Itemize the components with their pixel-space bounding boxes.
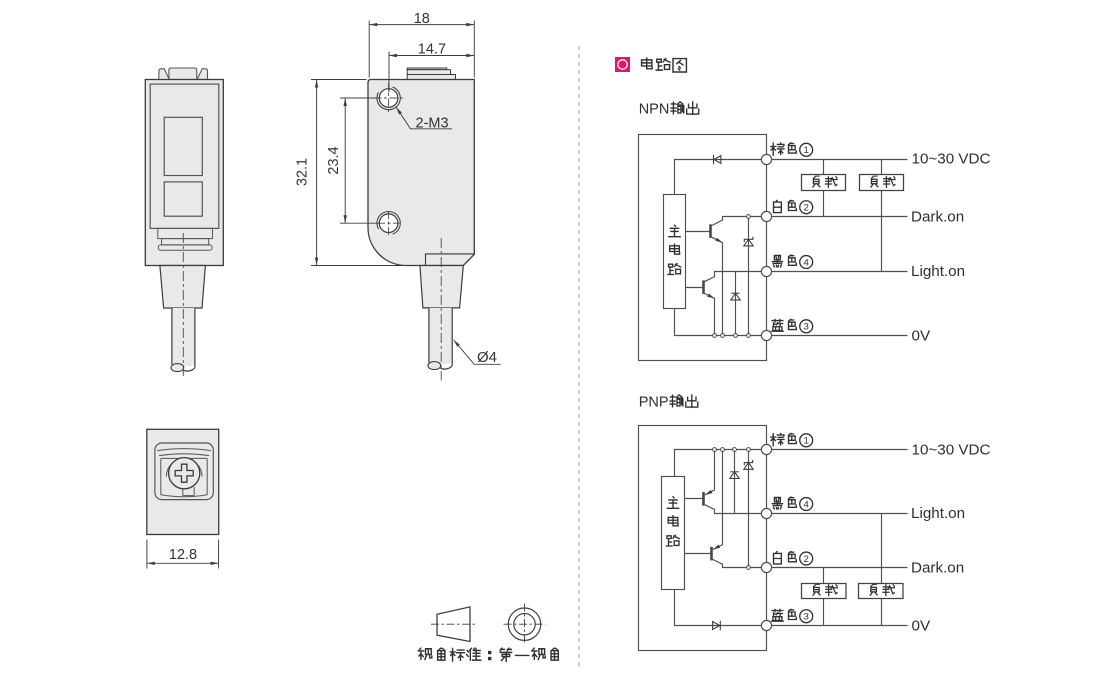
svg-text:Dark.on: Dark.on xyxy=(911,560,964,577)
svg-text:10~30 VDC: 10~30 VDC xyxy=(912,151,991,168)
svg-text:NPN: NPN xyxy=(639,101,670,117)
svg-text:10~30 VDC: 10~30 VDC xyxy=(912,442,991,459)
svg-text:0V: 0V xyxy=(912,617,931,634)
svg-text:Light.on: Light.on xyxy=(911,505,965,522)
svg-text:2-M3: 2-M3 xyxy=(416,115,449,131)
svg-text:23.4: 23.4 xyxy=(326,146,342,174)
svg-text:PNP: PNP xyxy=(639,394,669,410)
svg-text:Ø4: Ø4 xyxy=(477,349,497,366)
svg-text:14.7: 14.7 xyxy=(418,41,446,57)
svg-text:0V: 0V xyxy=(912,327,931,344)
svg-text:Dark.on: Dark.on xyxy=(911,209,964,226)
svg-text:Light.on: Light.on xyxy=(911,263,965,280)
svg-text:18: 18 xyxy=(414,11,430,27)
svg-text:32.1: 32.1 xyxy=(295,158,311,186)
svg-text:12.8: 12.8 xyxy=(169,547,197,563)
